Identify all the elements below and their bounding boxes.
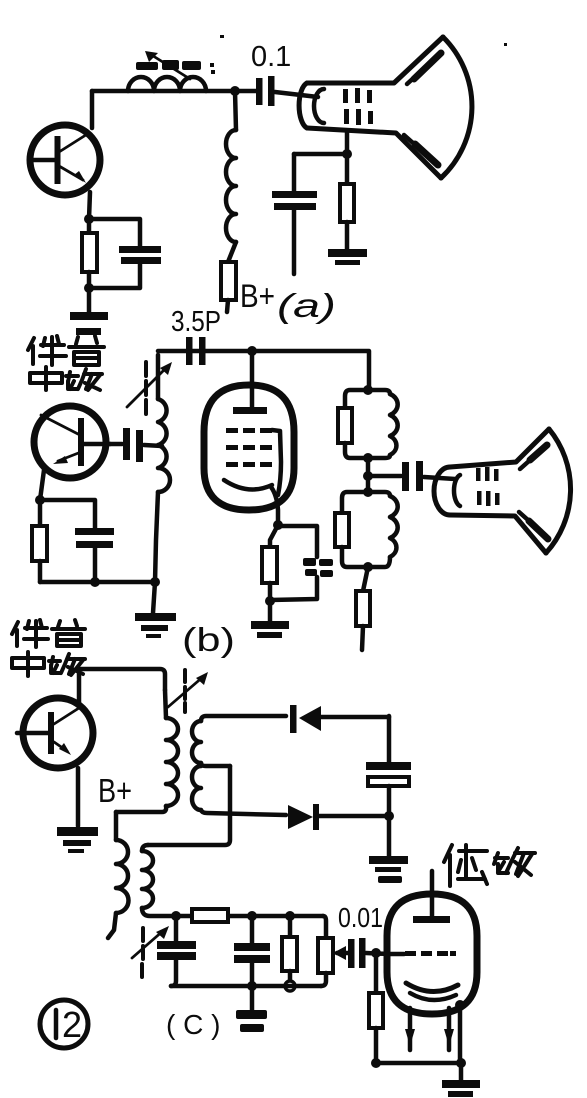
transformer T2 left coil (108, 840, 129, 938)
resistor R3 (B+ feed) (221, 242, 236, 312)
inductor L1 (128, 77, 206, 91)
node below R1 (84, 283, 94, 293)
wire top rail (92, 89, 256, 94)
inductor L3 (158, 355, 170, 492)
wire to ground (268, 601, 273, 621)
capacitor C1 0.1 (251, 41, 291, 106)
svg-text:3.5P: 3.5P (171, 306, 221, 338)
wire D1 to C7 (387, 716, 392, 762)
transformer T2 right coil (142, 845, 176, 916)
wire collector riser (90, 91, 95, 128)
parallel branch with smudge component (270, 526, 333, 600)
transformer T1 secondary (192, 716, 286, 815)
wire top rail (b) (158, 351, 369, 390)
capacitor C10 0.01 (338, 902, 388, 968)
capacitor C2 (272, 154, 317, 274)
resistor R8 (356, 567, 370, 650)
node C9 top (247, 911, 257, 921)
wire bottom rail (b) (40, 580, 155, 585)
trimmer arrow of C8 (132, 926, 169, 977)
node takeoff (363, 471, 373, 481)
transistor Q2 (34, 406, 110, 478)
label 中放 (c) (12, 652, 85, 676)
node emitter (84, 214, 94, 224)
node grid junction (247, 346, 257, 356)
wire emitter drop (c) (76, 768, 81, 826)
CRT V1 (speaker-like tube) (299, 37, 472, 178)
trimmer core of L3 (127, 362, 172, 414)
wire bottom rail c (176, 914, 323, 919)
wire bottom rail 2 (c) (171, 984, 321, 989)
capacitor C9 (234, 916, 270, 986)
svg-text:B+: B+ (240, 278, 275, 314)
wire cap to CRT (275, 92, 318, 97)
wire branch left (294, 152, 347, 157)
wire ground stub (c tube) (459, 1063, 464, 1080)
node top of tank2 (363, 487, 373, 497)
inductor L2 (vertical) (226, 91, 236, 242)
transistor Q3 (17, 698, 93, 768)
node tube right (455, 1000, 465, 1010)
ground under R2 (328, 249, 367, 265)
node top of tank1 (363, 385, 373, 395)
value smudge label of L1 (136, 35, 224, 74)
capacitor C6 (368, 461, 455, 491)
transistor Q1 (30, 125, 100, 195)
label 伴音 (c) (12, 620, 85, 647)
wire to ground (87, 288, 92, 312)
tank2: resistor R7 parallel inductor L5 (335, 492, 398, 567)
svg-text:0.1: 0.1 (251, 41, 291, 73)
node C8 top (171, 911, 181, 921)
label 中放 (b) (30, 367, 102, 390)
wire coil drop to rail (155, 492, 158, 582)
node bottom of tank2 (363, 562, 373, 572)
svg-text:B+: B+ (98, 772, 132, 809)
transformer T1 primary (116, 690, 178, 812)
node below R5 (265, 596, 275, 606)
resistor R10 (282, 916, 297, 991)
tube V2 (c) (387, 871, 477, 1014)
capacitor C3 (emitter bypass) (89, 219, 161, 288)
node bottom of tank1 (363, 453, 373, 463)
ground under Q3 (57, 827, 98, 853)
tank1: resistor R6 parallel inductor L4 (338, 390, 398, 458)
diode D2 (288, 804, 389, 830)
ground below C7 (369, 856, 408, 883)
trimmer capacitor C8 (157, 916, 196, 986)
wire emitter drop (89, 192, 90, 219)
CRT V2 (b) (434, 429, 571, 553)
diode D1 (290, 705, 389, 733)
node grid junction (c) (371, 948, 381, 958)
capacitor C4 (coupling) (110, 428, 162, 462)
svg-text:2: 2 (62, 1004, 82, 1045)
circled figure number 12 (40, 1000, 88, 1048)
resistor R5 (262, 525, 278, 601)
node junction top rail (230, 86, 240, 96)
resistor R2 (340, 154, 354, 249)
wire collector riser (c) (77, 669, 82, 703)
wire junction to ground (387, 816, 392, 856)
svg-text:(b): (b) (182, 621, 235, 658)
speck (504, 43, 507, 46)
wire emitter drop (b) (40, 470, 44, 500)
label 低放 (444, 845, 535, 886)
wire tank1 to tank2 (366, 458, 371, 492)
wire T1 primary bottom drop (114, 812, 119, 840)
svg-text:(a): (a) (277, 287, 336, 324)
node emitter (b) (35, 495, 45, 505)
trimmer arrow of L1 (145, 51, 190, 79)
node cathode (b) (273, 520, 283, 530)
wire bottom rail 3 (c) (376, 1061, 461, 1066)
resistor R12 (369, 953, 383, 1063)
node C9 bottom (247, 981, 257, 991)
node R10 top (285, 911, 295, 921)
ground (b) (135, 613, 176, 638)
resistor R1 (82, 219, 97, 288)
wire CRT cathode drop (345, 131, 350, 154)
svg-text:( C ): ( C ) (166, 1009, 220, 1040)
resistor R11 (volume pot) (318, 916, 333, 986)
label 伴音 (b) (28, 336, 104, 365)
resistor R4 (32, 500, 47, 582)
heater arrows (405, 1008, 454, 1050)
capacitor C5 (emitter bypass b) (40, 500, 114, 582)
wire top rail (c) (79, 669, 165, 690)
wire rail to ground (153, 582, 155, 613)
ground under R5 (251, 621, 289, 638)
svg-text:0.01: 0.01 (338, 902, 383, 933)
wire tube right drop (458, 1005, 463, 1063)
node D2/C7 junction (384, 811, 394, 821)
resistor R9 (horizontal) (192, 909, 228, 922)
wire ground stub (250, 986, 255, 1011)
pot wiper arrow (333, 946, 348, 960)
trimmer core of T1 (168, 670, 208, 712)
node below CRT (342, 149, 352, 159)
ground under tube (442, 1080, 480, 1097)
ground below C9 (236, 1010, 267, 1032)
wire T1 tap route (148, 766, 230, 845)
capacitor C3b 3.5P (171, 306, 221, 365)
tube V1 (b) (204, 351, 294, 525)
ground under R1 (70, 312, 108, 335)
capacitor C7 (electrolytic) (366, 762, 411, 816)
